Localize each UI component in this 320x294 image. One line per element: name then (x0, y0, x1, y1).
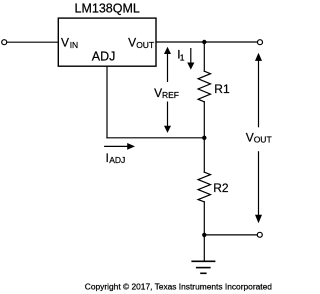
svg-text:R2: R2 (213, 181, 229, 195)
svg-text:IN: IN (70, 40, 79, 50)
svg-text:V: V (128, 36, 136, 50)
svg-text:ADJ: ADJ (92, 49, 116, 63)
svg-text:LM138QML: LM138QML (75, 2, 140, 16)
svg-text:OUT: OUT (136, 40, 154, 50)
svg-text:V: V (61, 36, 69, 50)
svg-text:V: V (154, 86, 162, 100)
svg-text:V: V (246, 130, 254, 144)
svg-text:ADJ: ADJ (109, 155, 125, 165)
svg-text:R1: R1 (214, 82, 230, 96)
svg-text:Copyright © 2017, Texas Instru: Copyright © 2017, Texas Instruments Inco… (85, 282, 272, 292)
svg-text:1: 1 (180, 52, 185, 62)
svg-text:REF: REF (162, 90, 179, 100)
svg-text:OUT: OUT (254, 135, 272, 145)
